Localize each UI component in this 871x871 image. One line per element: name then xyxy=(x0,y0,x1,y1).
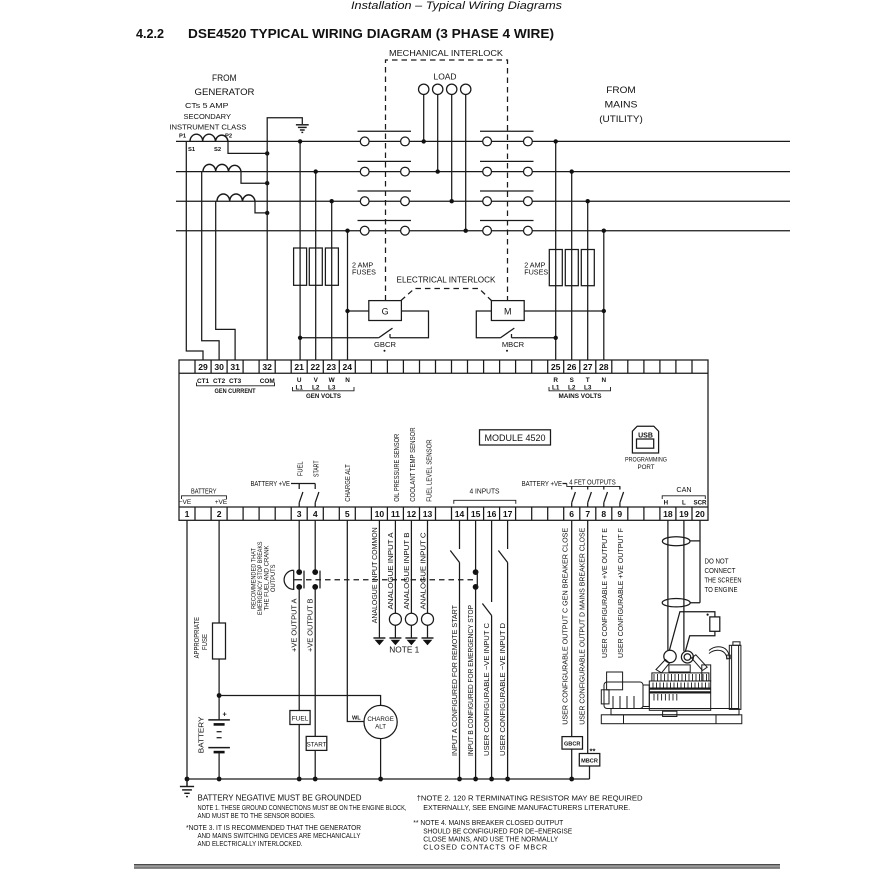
radiator cap xyxy=(733,642,740,646)
svg-text:INPUT A CONFIGURED FOR REMOTE: INPUT A CONFIGURED FOR REMOTE START xyxy=(450,604,459,756)
label DO NOT CONNECT THE SCREEN TO ENGINE xyxy=(705,557,742,595)
svg-text:25: 25 xyxy=(551,362,561,372)
svg-text:18: 18 xyxy=(663,509,673,519)
svg-text:SECONDARY: SECONDARY xyxy=(184,112,232,121)
appropriate fuse xyxy=(213,623,226,659)
svg-text:INSTRUMENT CLASS: INSTRUMENT CLASS xyxy=(169,123,246,132)
wire analogue input C sender xyxy=(427,520,429,613)
module 4520 outline xyxy=(179,360,708,520)
wire analogue input A sender xyxy=(394,520,396,613)
svg-text:LOAD: LOAD xyxy=(434,73,457,82)
svg-text:8: 8 xyxy=(601,509,606,519)
svg-text:20: 20 xyxy=(695,509,705,519)
svg-text:14: 14 xyxy=(455,509,465,519)
svg-text:†NOTE 2. 120 R TERMINATING RES: †NOTE 2. 120 R TERMINATING RESISTOR MAY … xyxy=(417,794,643,803)
svg-text:FUSES: FUSES xyxy=(352,268,376,277)
svg-text:21: 21 xyxy=(294,362,304,372)
wire analogue input B sender xyxy=(410,520,412,613)
engine base skid xyxy=(601,715,742,724)
svg-text:THE SCREEN: THE SCREEN xyxy=(705,576,742,585)
svg-text:W: W xyxy=(329,377,336,384)
svg-text:BATTERY: BATTERY xyxy=(196,716,205,753)
turbo housing xyxy=(702,665,711,681)
wire M coil to MBCR contact xyxy=(476,311,500,338)
load wire 2 xyxy=(437,95,439,172)
twisted pair ellipse 2 xyxy=(662,599,690,607)
svg-text:OIL PRESSURE SENSOR: OIL PRESSURE SENSOR xyxy=(392,434,401,502)
gen 2 amp fuse F2 xyxy=(309,248,322,285)
MBCR aux contact xyxy=(501,328,558,340)
engine rocker cover xyxy=(652,673,709,681)
engine belly tank xyxy=(663,711,677,716)
charge alt circle xyxy=(364,705,397,738)
estop contact on output B xyxy=(312,569,320,590)
svg-text:R: R xyxy=(553,377,558,384)
svg-text:CAN: CAN xyxy=(676,485,691,494)
svg-text:32: 32 xyxy=(262,362,272,372)
mains bus wire N xyxy=(532,230,790,232)
load terminal circles xyxy=(419,84,471,94)
svg-text:FROM: FROM xyxy=(606,85,636,96)
svg-text:24: 24 xyxy=(343,362,353,372)
wire output A to fuel relay xyxy=(298,587,300,711)
svg-text:BATTERY: BATTERY xyxy=(191,487,217,496)
MBCR relay box xyxy=(579,754,600,767)
svg-text:2: 2 xyxy=(217,509,222,519)
svg-text:4.2.2: 4.2.2 xyxy=(136,27,164,41)
svg-text:FUSES: FUSES xyxy=(524,268,548,277)
fet feed wire xyxy=(563,483,567,485)
svg-text:GBCR: GBCR xyxy=(564,742,580,748)
footer divider bar xyxy=(134,864,780,869)
svg-text:−VE: −VE xyxy=(179,499,192,506)
wire charge alt to rail xyxy=(380,739,382,779)
svg-text:FUEL LEVEL SENSOR: FUEL LEVEL SENSOR xyxy=(424,439,433,501)
CAN pin labels H L SCR xyxy=(664,500,707,507)
svg-text:INPUT B CONFIGURED FOR EMERGEN: INPUT B CONFIGURED FOR EMERGENCY STOP xyxy=(466,605,475,756)
svg-text:AND ELECTRICALLY INTERLOCKED.: AND ELECTRICALLY INTERLOCKED. xyxy=(198,839,303,848)
fet output C switch xyxy=(572,486,576,507)
alternator end cap xyxy=(601,690,609,704)
generator set engine drawing xyxy=(601,642,742,724)
wire output B to start relay xyxy=(314,587,316,737)
mains bus wire R xyxy=(532,140,790,142)
wire fuel relay to rail xyxy=(298,725,300,780)
CT common wire to terminal 32 xyxy=(267,118,302,360)
mains volts terminal labels xyxy=(552,377,607,392)
mains neutral wire 28/N xyxy=(603,231,605,360)
load bus wires between breakers xyxy=(409,141,482,230)
svg-text:GENERATOR: GENERATOR xyxy=(195,87,255,98)
wire output 7 to MBCR relay xyxy=(587,520,589,753)
junction xyxy=(265,151,269,155)
battery negative rail xyxy=(187,778,590,780)
wire input 17 switch xyxy=(498,520,507,779)
CT2 S1 wire to terminal 30 xyxy=(202,172,219,360)
svg-text:5: 5 xyxy=(345,509,350,519)
CAN H wire xyxy=(667,520,669,650)
svg-text:7: 7 xyxy=(585,509,590,519)
svg-text:10: 10 xyxy=(375,509,385,519)
load wire 3 xyxy=(451,95,453,202)
svg-text:**: ** xyxy=(590,747,596,756)
mains bus wire T xyxy=(532,200,790,202)
gen bus wire L1 xyxy=(176,140,360,142)
coolant pipe xyxy=(709,647,729,659)
svg-text:SCR: SCR xyxy=(693,500,707,507)
module 4520 label box xyxy=(480,430,551,445)
top terminal strip xyxy=(179,372,708,374)
svg-text:CLOSED CONTACTS OF MBCR: CLOSED CONTACTS OF MBCR xyxy=(423,843,547,852)
sensor ground A xyxy=(389,638,401,645)
wire battery to rail xyxy=(218,752,220,779)
svg-text:AND MUST BE TO THE SENSOR BODI: AND MUST BE TO THE SENSOR BODIES. xyxy=(198,811,316,820)
USB programming port icon xyxy=(632,426,658,453)
engine mounting rail xyxy=(611,709,739,715)
radiator inlet block xyxy=(727,655,731,659)
start output switch xyxy=(314,484,316,490)
estop contact on output A xyxy=(296,569,304,590)
wire GBCR to rail xyxy=(571,749,573,779)
intake tube left xyxy=(656,660,670,673)
battery B+ wire to charge alt xyxy=(219,696,381,706)
gen fuse wire 21/U xyxy=(299,141,301,360)
engine CAN port H xyxy=(664,650,676,662)
svg-text:28: 28 xyxy=(599,362,609,372)
svg-text:START: START xyxy=(311,460,320,477)
mains breaker contacts xyxy=(480,131,534,235)
wire input 14 remote start switch xyxy=(450,520,459,779)
svg-text:ANALOGUE INPUT A: ANALOGUE INPUT A xyxy=(386,532,395,609)
svg-text:Installation – Typical Wiring: Installation – Typical Wiring Diagrams xyxy=(351,0,563,12)
wire MBCR to rail xyxy=(589,766,591,779)
fuel relay box xyxy=(290,711,310,725)
svg-text:FUEL: FUEL xyxy=(292,715,309,722)
gen bus wire N xyxy=(176,230,360,232)
label CTs 5 AMP SECONDARY INSTRUMENT CLASS xyxy=(169,101,246,132)
svg-text:USER CONFIGURABLE −VE INPUT C: USER CONFIGURABLE −VE INPUT C xyxy=(482,623,491,756)
wire input 15 emergency stop xyxy=(473,520,479,779)
svg-text:CT2: CT2 xyxy=(213,378,226,385)
svg-text:BATTERY +VE: BATTERY +VE xyxy=(251,479,291,488)
gen fuse wire 23/W xyxy=(331,201,333,360)
mains bus wire S xyxy=(532,171,790,173)
gen breaker contacts xyxy=(358,131,412,235)
CT1 current transformer coil xyxy=(190,134,228,141)
mains volts bracket xyxy=(549,387,611,391)
svg-text:11: 11 xyxy=(391,509,400,519)
svg-text:17: 17 xyxy=(503,509,513,519)
mains fuse wire 26/S xyxy=(571,172,573,360)
svg-text:L: L xyxy=(682,500,686,507)
wire fuse to battery xyxy=(218,659,220,720)
svg-text:ALT: ALT xyxy=(375,723,386,730)
mains 2 amp fuse F6 xyxy=(581,250,594,286)
CAN screen wire xyxy=(690,520,700,602)
svg-text:29: 29 xyxy=(198,362,208,372)
bottom strip terminal numbers xyxy=(185,509,705,519)
svg-text:GBCR: GBCR xyxy=(374,340,396,349)
svg-text:CHARGE: CHARGE xyxy=(367,716,393,723)
svg-text:22: 22 xyxy=(311,362,321,372)
mains fuse wire 27/T xyxy=(587,201,589,360)
mains 2 amp fuse F4 xyxy=(549,250,562,286)
svg-text:S: S xyxy=(570,377,575,384)
sender A circle xyxy=(389,613,401,625)
svg-text:CT1: CT1 xyxy=(197,378,210,385)
CT3 S2 wire to common xyxy=(255,201,267,213)
wire start relay to rail xyxy=(314,750,316,779)
bottom terminal strip xyxy=(179,506,708,508)
svg-text:USER CONFIGURABLE OUTPUT C GEN: USER CONFIGURABLE OUTPUT C GEN BREAKER C… xyxy=(561,528,570,725)
label FROM MAINS (UTILITY) xyxy=(599,85,643,125)
load wire 1 xyxy=(423,95,425,142)
svg-text:START: START xyxy=(307,741,327,748)
svg-text:GEN VOLTS: GEN VOLTS xyxy=(306,393,342,400)
alternator body xyxy=(604,682,643,709)
CT1 S1 wire to terminal 29 xyxy=(186,141,203,360)
svg-text:31: 31 xyxy=(230,362,240,372)
alternator junction box xyxy=(607,672,623,690)
GBCR relay box xyxy=(562,737,583,750)
wire input 16 switch xyxy=(482,520,491,779)
svg-text:PORT: PORT xyxy=(637,464,654,471)
engine block xyxy=(649,681,710,710)
CAN L wire xyxy=(683,520,685,651)
intake tube right xyxy=(692,655,708,671)
junction xyxy=(265,211,269,215)
svg-text:BATTERY +VE: BATTERY +VE xyxy=(522,479,563,488)
svg-text:V: V xyxy=(314,377,319,384)
battery symbol xyxy=(208,710,230,753)
svg-text:ANALOGUE INPUT COMMON: ANALOGUE INPUT COMMON xyxy=(370,527,379,623)
CT3 current transformer coil xyxy=(217,194,255,201)
terminating resistor loop xyxy=(670,612,715,652)
earth ground for CT common xyxy=(296,125,309,133)
svg-text:MBCR: MBCR xyxy=(581,759,598,765)
svg-text:T: T xyxy=(586,377,590,384)
4 inputs bracket xyxy=(454,500,516,504)
svg-text:MBCR: MBCR xyxy=(502,340,525,349)
svg-text:ANALOGUE INPUT C: ANALOGUE INPUT C xyxy=(418,533,427,610)
contactor coil G xyxy=(369,301,402,321)
svg-text:N: N xyxy=(345,377,350,384)
svg-text:BATTERY NEGATIVE MUST BE GROUN: BATTERY NEGATIVE MUST BE GROUNDED xyxy=(198,794,362,803)
emergency stop dashed actuator line xyxy=(297,579,478,581)
120R terminating resistor xyxy=(710,617,720,631)
sender C circle xyxy=(422,613,434,625)
svg-text:EXTERNALLY, SEE ENGINE MANUFAC: EXTERNALLY, SEE ENGINE MANUFACTURERS LIT… xyxy=(423,803,630,812)
wire terminal 1 to ground rail xyxy=(186,520,188,779)
svg-text:FUEL: FUEL xyxy=(295,461,304,476)
gen bus wire L3 xyxy=(176,200,360,202)
svg-text:+: + xyxy=(223,710,227,719)
svg-text:+VE OUTPUT A: +VE OUTPUT A xyxy=(290,598,299,652)
GBCR aux contact xyxy=(298,328,393,340)
svg-text:CT3: CT3 xyxy=(229,378,242,385)
wire output B upper xyxy=(314,520,316,570)
wire output A upper xyxy=(298,520,300,570)
svg-text:4: 4 xyxy=(313,509,318,519)
svg-text:CTs 5 AMP: CTs 5 AMP xyxy=(185,101,229,110)
svg-text:U: U xyxy=(297,377,302,384)
junction xyxy=(265,181,269,185)
svg-text:CHARGE ALT: CHARGE ALT xyxy=(343,464,352,502)
svg-text:G: G xyxy=(382,307,389,317)
svg-text:PROGRAMMING: PROGRAMMING xyxy=(625,457,667,464)
emergency stop note rotated xyxy=(251,542,278,616)
battery negative earth ground xyxy=(180,779,194,797)
svg-text:MODULE 4520: MODULE 4520 xyxy=(484,433,545,443)
svg-text:P1: P1 xyxy=(179,134,187,140)
twisted pair ellipse 1 xyxy=(662,537,690,546)
svg-text:MECHANICAL INTERLOCK: MECHANICAL INTERLOCK xyxy=(389,49,504,58)
svg-text:26: 26 xyxy=(567,362,577,372)
svg-text:1: 1 xyxy=(185,509,190,519)
CT3 S1 wire to terminal 31 xyxy=(216,201,235,360)
svg-text:3: 3 xyxy=(297,509,302,519)
svg-text:USER CONFIGURABLE +VE OUTPUT E: USER CONFIGURABLE +VE OUTPUT E xyxy=(600,528,609,658)
svg-text:6: 6 xyxy=(569,509,574,519)
sender B circle xyxy=(405,613,417,625)
bottom notes right column xyxy=(413,794,642,852)
svg-text:WL: WL xyxy=(352,715,361,721)
start relay box xyxy=(306,736,327,750)
svg-text:USER CONFIGURABLE −VE INPUT D: USER CONFIGURABLE −VE INPUT D xyxy=(498,623,507,756)
load wire 4 xyxy=(465,95,467,231)
svg-text:19: 19 xyxy=(679,509,689,519)
sensor ground C xyxy=(422,638,434,645)
gen 2 amp fuse F1 xyxy=(294,248,307,285)
svg-text:+VE: +VE xyxy=(215,499,228,506)
wire terminal 5 to charge alt WL xyxy=(347,520,364,721)
svg-text:MAINS VOLTS: MAINS VOLTS xyxy=(559,393,603,400)
mechanical interlock dashed box xyxy=(386,60,508,301)
svg-text:15: 15 xyxy=(471,509,481,519)
svg-text:N: N xyxy=(601,377,606,384)
svg-text:H: H xyxy=(664,500,669,507)
fet output E switch xyxy=(604,486,608,507)
mains fuse wire 25/R xyxy=(555,141,557,360)
label FROM GENERATOR xyxy=(195,73,255,98)
bottom strip cell separators xyxy=(195,507,692,520)
svg-text:USER CONFIGURABLE OUTPUT D MAI: USER CONFIGURABLE OUTPUT D MAINS BREAKER… xyxy=(578,528,587,725)
wire analogue common to ground xyxy=(378,520,380,638)
intake manifold xyxy=(669,665,690,672)
gen volts bracket xyxy=(293,387,355,391)
svg-text:4 FET OUTPUTS: 4 FET OUTPUTS xyxy=(569,478,616,487)
bottom notes left column xyxy=(198,794,362,803)
svg-text:(UTILITY): (UTILITY) xyxy=(599,114,643,125)
svg-text:P2: P2 xyxy=(225,134,232,140)
svg-text:M: M xyxy=(504,307,512,317)
top strip terminal numbers xyxy=(198,362,609,372)
svg-text:27: 27 xyxy=(583,362,593,372)
svg-text:30: 30 xyxy=(214,362,224,372)
wire G coil to N xyxy=(348,310,369,312)
electrical interlock dashed link xyxy=(401,289,491,301)
sensor ground B xyxy=(405,638,417,645)
svg-text:S2: S2 xyxy=(214,147,221,153)
wire terminal 2 to fuse xyxy=(218,520,220,623)
dagger marker xyxy=(707,614,709,616)
svg-text:CONNECT: CONNECT xyxy=(705,566,737,575)
wire output 6 to GBCR relay xyxy=(571,520,573,736)
svg-text:USB: USB xyxy=(638,433,653,440)
gen current bracket xyxy=(197,383,275,386)
mains 2 amp fuse F5 xyxy=(565,250,578,286)
CAN bracket xyxy=(662,496,705,499)
svg-text:13: 13 xyxy=(423,509,433,519)
wire G coil to GBCR contact xyxy=(390,311,429,338)
battery +ve feed wire xyxy=(291,483,315,485)
gen volts terminal labels xyxy=(295,377,350,392)
svg-text:ELECTRICAL INTERLOCK: ELECTRICAL INTERLOCK xyxy=(397,276,497,285)
svg-text:FUSE: FUSE xyxy=(200,634,209,650)
top strip cell separators xyxy=(195,360,692,373)
CT2 current transformer coil xyxy=(203,164,241,171)
svg-text:S1: S1 xyxy=(188,147,196,153)
svg-text:23: 23 xyxy=(327,362,337,372)
CT1 S2 wire to common xyxy=(228,141,267,153)
gen fuse wire 22/V xyxy=(315,172,317,360)
svg-text:12: 12 xyxy=(407,509,417,519)
emergency stop mushroom head xyxy=(284,570,296,589)
svg-text:GEN CURRENT: GEN CURRENT xyxy=(215,388,256,395)
svg-text:FROM: FROM xyxy=(212,73,237,84)
svg-text:OUTPUTS: OUTPUTS xyxy=(270,565,277,593)
svg-text:4 INPUTS: 4 INPUTS xyxy=(470,487,500,496)
fuel output switch xyxy=(298,484,300,490)
svg-text:TO ENGINE: TO ENGINE xyxy=(705,585,738,594)
radiator xyxy=(729,645,741,709)
sensor ground common xyxy=(373,638,385,645)
svg-text:16: 16 xyxy=(487,509,497,519)
svg-text:COOLANT TEMP SENSOR: COOLANT TEMP SENSOR xyxy=(408,427,417,501)
svg-text:ANALOGUE INPUT B: ANALOGUE INPUT B xyxy=(402,532,411,609)
fet outputs bracket xyxy=(567,484,620,490)
gen bus wire L2 xyxy=(176,171,360,173)
svg-text:NOTE 1: NOTE 1 xyxy=(389,646,419,655)
svg-text:DSE4520 TYPICAL WIRING DIAGRAM: DSE4520 TYPICAL WIRING DIAGRAM (3 PHASE … xyxy=(188,27,554,41)
svg-text:9: 9 xyxy=(617,509,622,519)
fet output F switch xyxy=(620,486,624,507)
svg-text:DO NOT: DO NOT xyxy=(705,557,730,566)
gen 2 amp fuse F3 xyxy=(325,248,338,285)
svg-text:COM: COM xyxy=(260,378,275,385)
gen neutral wire 24/N xyxy=(347,231,349,360)
svg-text:USER CONFIGURABLE +VE OUTPUT F: USER CONFIGURABLE +VE OUTPUT F xyxy=(616,527,625,658)
engine CAN port L xyxy=(681,651,693,663)
engine block ribs xyxy=(653,674,709,701)
CT1 labels P1 S1 S2 P2 xyxy=(179,134,232,154)
svg-text:MAINS: MAINS xyxy=(605,100,638,111)
gen current terminal labels xyxy=(197,378,275,385)
contactor coil M xyxy=(491,301,524,321)
fet output D switch xyxy=(588,486,592,507)
wire M coil to N xyxy=(524,310,604,312)
CT2 S2 wire to common xyxy=(241,172,267,184)
svg-text:+VE OUTPUT B: +VE OUTPUT B xyxy=(306,598,315,652)
